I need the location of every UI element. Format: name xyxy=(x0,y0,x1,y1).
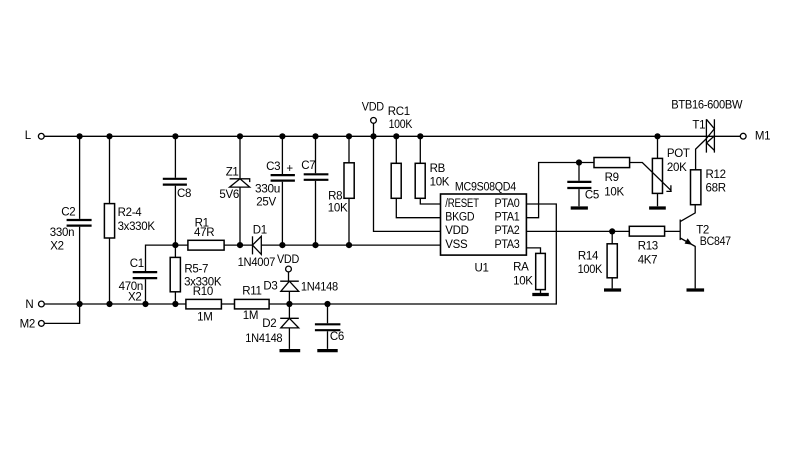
svg-text:RA: RA xyxy=(513,262,529,274)
resistor R8 xyxy=(328,136,354,245)
svg-text:C5: C5 xyxy=(585,190,599,202)
diode D1 xyxy=(238,225,441,270)
resistor R1 xyxy=(175,218,252,250)
svg-text:C1: C1 xyxy=(130,258,144,270)
terminal M1 xyxy=(740,130,770,142)
ground (below POT) xyxy=(649,206,666,209)
resistor R11 xyxy=(235,285,270,322)
svg-text:RC1: RC1 xyxy=(388,106,410,118)
node top rail junctions xyxy=(77,133,661,139)
wire PTA1 net xyxy=(526,163,594,218)
svg-text:PTA3: PTA3 xyxy=(495,239,520,251)
svg-text:X2: X2 xyxy=(50,241,63,253)
svg-text:R2-4: R2-4 xyxy=(118,207,143,219)
resistor R10 xyxy=(186,286,222,324)
svg-text:330u: 330u xyxy=(255,184,280,196)
resistor RA xyxy=(513,253,545,293)
svg-text:1N4148: 1N4148 xyxy=(301,281,338,293)
svg-text:/RESET: /RESET xyxy=(445,198,479,210)
resistor R5-7 xyxy=(170,245,222,304)
svg-text:VDD: VDD xyxy=(277,254,299,266)
svg-text:100K: 100K xyxy=(389,119,413,131)
svg-text:R13: R13 xyxy=(638,241,658,253)
svg-text:R5-7: R5-7 xyxy=(184,263,208,275)
svg-text:PTA0: PTA0 xyxy=(495,198,520,210)
svg-text:BTB16-600BW: BTB16-600BW xyxy=(671,99,742,111)
resistor RB xyxy=(415,136,450,204)
capacitor C3 xyxy=(255,136,295,245)
svg-text:D1: D1 xyxy=(253,225,267,237)
resistor R2-4 xyxy=(104,136,155,304)
capacitor C1 xyxy=(119,245,176,304)
svg-text:RB: RB xyxy=(430,163,446,175)
svg-text:R12: R12 xyxy=(706,169,726,181)
wire N rail xyxy=(44,204,556,304)
svg-text:20K: 20K xyxy=(667,162,687,174)
svg-text:C3: C3 xyxy=(266,161,280,173)
node VSS-rail junctions xyxy=(172,242,352,248)
svg-text:U1: U1 xyxy=(475,262,489,274)
svg-text:10K: 10K xyxy=(430,176,450,188)
svg-text:330n: 330n xyxy=(50,227,74,239)
svg-text:POT: POT xyxy=(667,148,690,160)
node R14 junction xyxy=(609,228,615,234)
ground (below D2) xyxy=(280,349,301,352)
capacitor C7 xyxy=(301,136,328,245)
diode D3 xyxy=(263,281,338,305)
svg-text:VDD: VDD xyxy=(362,101,384,113)
svg-text:T2: T2 xyxy=(696,225,709,237)
svg-text:C8: C8 xyxy=(177,188,191,200)
svg-text:R8: R8 xyxy=(328,191,342,203)
svg-text:BC847: BC847 xyxy=(700,236,731,248)
svg-text:R9: R9 xyxy=(605,172,619,184)
diode D2 xyxy=(245,304,298,349)
svg-text:C2: C2 xyxy=(61,206,75,218)
op-amp U1 MC9S08QD4 box xyxy=(441,181,527,274)
resistor R13 xyxy=(629,226,664,266)
ground (below C6) xyxy=(317,349,337,352)
svg-text:3x330K: 3x330K xyxy=(118,221,156,233)
terminal M2 xyxy=(20,318,45,330)
svg-text:5V6: 5V6 xyxy=(219,189,239,201)
node N rail junctions xyxy=(77,301,331,307)
svg-text:100K: 100K xyxy=(578,264,603,276)
svg-text:10K: 10K xyxy=(513,275,533,287)
node R9/C5 junction xyxy=(576,159,582,165)
terminal L xyxy=(25,130,44,142)
svg-text:68R: 68R xyxy=(706,182,726,194)
wire PTA2 net xyxy=(526,230,679,232)
triac T1 xyxy=(671,99,742,152)
ground (below T2) xyxy=(687,288,705,291)
terminal N xyxy=(25,299,44,311)
wire M2 branch xyxy=(44,304,79,323)
wire VDD pin net xyxy=(374,136,441,231)
transistor T2 xyxy=(680,205,731,289)
svg-text:L: L xyxy=(25,130,32,142)
svg-text:X2: X2 xyxy=(128,291,141,303)
svg-text:4K7: 4K7 xyxy=(638,255,658,267)
svg-text:C6: C6 xyxy=(330,331,344,343)
svg-text:1M: 1M xyxy=(243,310,258,322)
svg-text:M1: M1 xyxy=(755,130,770,142)
ground (below C5) xyxy=(571,206,588,209)
power VDD (top) xyxy=(362,101,384,136)
svg-text:M2: M2 xyxy=(20,318,35,330)
svg-text:N: N xyxy=(25,299,33,311)
svg-text:25V: 25V xyxy=(256,197,276,209)
capacitor C6 xyxy=(315,304,344,349)
svg-text:10K: 10K xyxy=(328,202,348,214)
svg-text:R10: R10 xyxy=(193,286,213,298)
resistor R14 xyxy=(578,231,618,288)
capacitor C5 xyxy=(567,163,599,207)
svg-text:1N4007: 1N4007 xyxy=(238,257,276,269)
resistor RC1 xyxy=(388,106,441,218)
svg-text:R14: R14 xyxy=(578,251,599,263)
svg-text:T1: T1 xyxy=(692,119,705,131)
capacitor C2 xyxy=(50,136,92,304)
svg-text:VSS: VSS xyxy=(445,239,468,251)
wire top rail xyxy=(44,135,740,137)
svg-text:Z1: Z1 xyxy=(226,167,239,179)
svg-text:VDD: VDD xyxy=(445,225,468,237)
svg-text:PTA2: PTA2 xyxy=(495,225,520,237)
wire PTA3 net xyxy=(526,248,540,254)
svg-text:1M: 1M xyxy=(197,312,212,324)
potentiometer POT xyxy=(630,136,690,206)
svg-text:D2: D2 xyxy=(262,318,276,330)
resistor R9 xyxy=(594,158,630,199)
svg-text:47R: 47R xyxy=(194,227,214,239)
svg-text:D3: D3 xyxy=(263,281,277,293)
svg-text:+: + xyxy=(286,163,293,175)
svg-text:10K: 10K xyxy=(604,186,624,198)
ground (below R14) xyxy=(604,288,621,291)
ground (below RA) xyxy=(532,293,549,296)
resistor R12 xyxy=(691,139,726,205)
svg-text:BKGD: BKGD xyxy=(445,212,474,224)
capacitor C8 xyxy=(163,136,191,245)
svg-text:R11: R11 xyxy=(242,285,261,297)
power VDD (above D3) xyxy=(277,254,299,281)
zener Z1 xyxy=(219,136,249,245)
svg-text:1N4148: 1N4148 xyxy=(245,333,282,345)
svg-text:C7: C7 xyxy=(301,160,315,172)
svg-text:MC9S08QD4: MC9S08QD4 xyxy=(455,181,517,193)
svg-text:PTA1: PTA1 xyxy=(495,212,520,224)
